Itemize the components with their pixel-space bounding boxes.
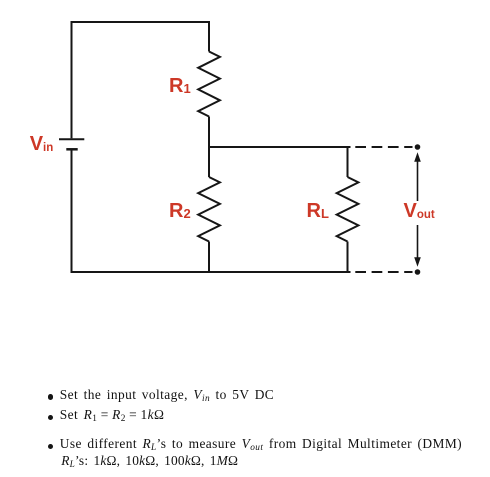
wire: middle rail node A to RL [209,146,351,148]
bullet item 3: use different RL values [48,436,462,469]
resistor R2 zigzag [198,177,220,242]
dashed probe wire: bottom [355,271,412,273]
Vout measurement arrow: down head [414,257,421,267]
label Vin [30,134,54,155]
dashed probe wire: top [355,146,412,148]
wire: battery positive terminal up to top-left corner [71,22,73,138]
label RL [307,201,329,221]
battery Vin negative plate [66,148,77,151]
wire: RL bottom lead [347,242,349,274]
wire: battery negative terminal down to bottom rail [71,150,73,273]
wire: bottom rail [71,271,351,273]
resistor R1 zigzag [198,52,220,117]
bullet item 1: set input voltage [48,387,274,404]
resistor RL zigzag [337,177,359,242]
wire: top rail from Vin to R1 [71,21,211,23]
wire: R1 top lead [208,21,210,52]
wire: R1 bottom lead to node A [208,117,210,149]
Vout measurement arrow: upper shaft [417,161,419,202]
wire: R2 top lead [208,147,210,177]
battery Vin positive plate [59,138,84,140]
label Vout [404,201,435,222]
label R2 [169,201,191,221]
probe node dot: bottom [415,269,421,275]
wire: RL top lead [347,146,349,177]
Vout measurement arrow: lower shaft [417,225,419,258]
probe node dot: top [415,144,421,150]
label R1 [169,76,191,96]
bullet item 2: set R1 = R2 [48,407,165,424]
wire: R2 bottom lead [208,242,210,274]
Vout measurement arrow: up head [414,152,421,162]
